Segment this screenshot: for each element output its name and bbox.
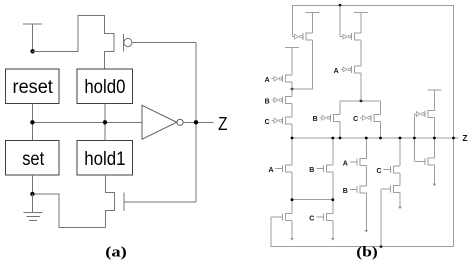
wire column G segments	[399, 138, 401, 207]
node dots node2	[291, 198, 335, 201]
wire column N2/N7 segments	[332, 138, 334, 238]
wire column C pair-left segments	[339, 101, 341, 138]
wire vdd to pmos source	[33, 50, 78, 52]
node dot mid left	[30, 120, 34, 124]
ground arrow colA	[290, 238, 294, 240]
nmos N8 feedback	[394, 186, 401, 193]
svg-text:C: C	[376, 168, 381, 175]
nmos Q2 body	[105, 175, 114, 228]
nmos N3 input A	[360, 159, 367, 166]
pmos P9 keeper	[428, 111, 435, 118]
nmos N9 keeper	[428, 158, 435, 165]
pmos P7 input B	[334, 114, 341, 121]
wire nmos gate to right vertical	[124, 201, 196, 203]
node dots output rail	[291, 137, 455, 140]
pmos P5 input B	[286, 97, 293, 104]
svg-text:B: B	[343, 188, 348, 195]
node dot output Z	[194, 120, 198, 124]
svg-text:(a): (a)	[105, 245, 127, 261]
box reset	[6, 69, 60, 103]
svg-text:A: A	[268, 167, 273, 174]
svg-text:B: B	[313, 116, 318, 123]
svg-text:Z: Z	[218, 114, 227, 134]
svg-text:C: C	[353, 116, 358, 123]
nmos N1 input A	[286, 165, 293, 172]
node dot mid right	[103, 120, 107, 124]
svg-text:B: B	[265, 98, 270, 105]
wire set to ground	[31, 175, 33, 194]
nmos Q2 gate bar	[123, 192, 125, 211]
svg-text:A: A	[334, 68, 339, 75]
pmos P3 input A	[355, 66, 362, 73]
wire mid bus to inverter	[32, 121, 142, 123]
svg-text:B: B	[309, 167, 314, 174]
box hold1	[77, 141, 132, 176]
svg-text:reset: reset	[13, 76, 54, 98]
wire pmos gate to right vertical	[132, 42, 196, 44]
node dot pair top	[360, 99, 363, 102]
svg-text:A: A	[343, 161, 348, 168]
pmos P4 input A	[286, 75, 293, 82]
node dot ground junction	[30, 192, 34, 196]
ground arrow colE	[365, 230, 369, 232]
vdd T-bar colA	[285, 47, 299, 49]
node dot top rail	[339, 4, 342, 7]
node dot vdd junction	[30, 49, 34, 53]
node dot bottom rail	[380, 245, 383, 248]
wire hold0 to hold1	[104, 104, 106, 141]
vdd T-bar colB	[306, 12, 320, 14]
ground arrow colN2	[331, 238, 335, 240]
svg-text:C: C	[309, 215, 314, 222]
pmos P8 input C	[374, 114, 381, 121]
wire inverter output	[183, 121, 214, 123]
wire output rail Z	[292, 137, 458, 139]
wire node2 bottom left	[292, 199, 333, 201]
box set	[6, 141, 60, 176]
vdd T-bar colI	[427, 89, 441, 91]
wire column F pair-right segments	[380, 101, 382, 138]
wire column I segments	[433, 90, 435, 184]
wire reset to set	[31, 104, 33, 141]
wire nmos source to ground node	[32, 194, 105, 228]
pmos P2	[355, 33, 362, 40]
pmos Q1 bubble	[124, 38, 132, 46]
wire pmos P1 drain jog	[292, 40, 313, 89]
ground arrow colI	[433, 184, 437, 186]
wire bottom rail	[271, 217, 454, 247]
wire pair top	[340, 100, 381, 102]
svg-text:C: C	[265, 119, 270, 126]
pmos Q1 gate bar	[122, 34, 124, 52]
ground symbol	[24, 194, 43, 220]
svg-text:Z: Z	[462, 133, 467, 143]
ground arrow colG	[398, 207, 402, 209]
svg-text:hold1: hold1	[84, 148, 125, 170]
wire right vertical feedback	[195, 43, 197, 202]
nmos N5 input C	[394, 166, 401, 173]
svg-text:hold0: hold0	[84, 76, 125, 98]
wire gate vertical for N8	[380, 189, 382, 247]
vdd supply bar (a)	[23, 24, 42, 51]
wire column E segments	[365, 138, 367, 230]
pmos P1	[306, 33, 313, 40]
svg-text:A: A	[265, 77, 270, 84]
pmos Q1 body	[78, 16, 114, 69]
inverter U1	[142, 105, 183, 139]
svg-text:(b): (b)	[356, 245, 378, 261]
wire gate link colH	[413, 114, 415, 162]
node dot P1 drain	[291, 88, 294, 91]
wire column B segment	[312, 13, 314, 33]
wire column A segments	[291, 48, 293, 239]
wire column D segments	[360, 12, 362, 100]
nmos N4 input B	[360, 186, 367, 193]
box hold0	[77, 69, 132, 103]
vdd T-bar colD	[354, 11, 368, 13]
pmos P6 input C	[286, 117, 293, 124]
nmos N2 input B	[326, 165, 333, 172]
nmos N7 input C	[326, 213, 333, 220]
wire top rail with left gate drop and right wrap	[292, 5, 453, 246]
svg-text:set: set	[22, 148, 44, 170]
wire gate drop colC	[339, 5, 341, 36]
nmos N6 feedback	[286, 213, 293, 220]
